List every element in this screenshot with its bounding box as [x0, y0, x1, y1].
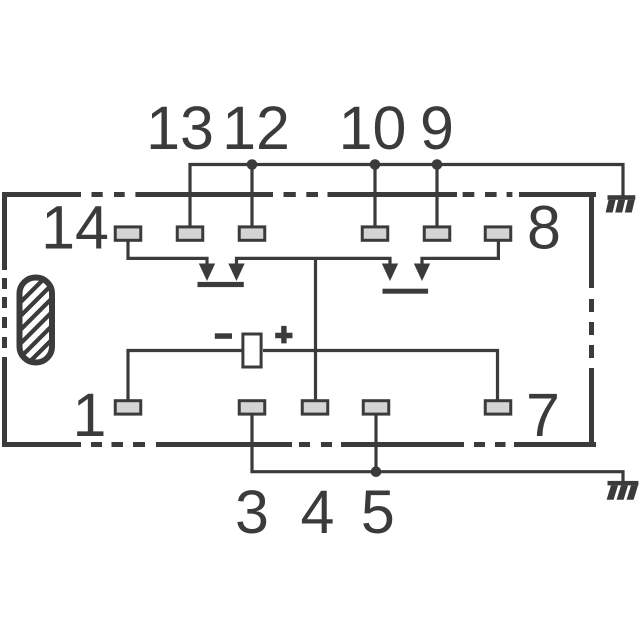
ground (top right) [606, 195, 636, 212]
pad pin 13 [177, 227, 203, 240]
coil polarity plus [275, 326, 292, 344]
node junction at pin 10 [370, 159, 381, 170]
ground (bottom right) [607, 481, 639, 500]
svg-text:4: 4 [301, 478, 335, 546]
wire pin 12 riser [250, 165, 253, 228]
svg-text:8: 8 [527, 194, 561, 262]
relay body top border [2, 192, 596, 197]
node junction at pin 12 [247, 159, 258, 170]
pad pin 9 [424, 227, 450, 240]
wire coil to pad 7 [263, 351, 498, 403]
svg-text:1: 1 [73, 381, 107, 449]
contact fixed bar (left group) [198, 282, 244, 287]
contact fixed bar (right group) [383, 289, 429, 294]
pad pin 7 [485, 401, 511, 414]
wire top bus from pin 13 to top-right ground [190, 165, 623, 228]
contact arm arrow (right group, inner) [382, 264, 398, 282]
contact arm arrow (right group, outer) [414, 264, 430, 282]
wire pad 1 to coil [128, 351, 242, 403]
svg-text:7: 7 [526, 381, 560, 449]
svg-text:3: 3 [235, 478, 269, 546]
wire pad 14 to left contact arm [128, 240, 207, 264]
pad pin 12 [239, 227, 265, 240]
wire pad 8 to right contact arm [422, 240, 498, 264]
node junction at pin 9 [432, 159, 443, 170]
relay body right border [589, 192, 594, 447]
pad pin 8 [485, 227, 511, 240]
pad pin 4 [302, 401, 328, 414]
contact arm arrow (left group, inner) [228, 264, 244, 282]
contact arm arrow (left group, outer) [199, 264, 215, 282]
coil polarity minus [215, 333, 232, 339]
svg-text:12: 12 [222, 94, 290, 162]
wire pin 9 riser [435, 165, 438, 228]
relay body bottom border [2, 442, 596, 447]
pad pin 5 [363, 401, 389, 414]
wire contact bus left arm to right group arm via pin 4 node [237, 258, 391, 264]
pad pin 14 [115, 227, 141, 240]
orientation mark (hatched capsule) [0, 60, 332, 363]
wire pad 5 drop [374, 413, 377, 472]
pad pin 10 [362, 227, 388, 240]
svg-text:9: 9 [420, 94, 454, 162]
svg-text:5: 5 [361, 478, 395, 546]
pad pin 3 [239, 401, 265, 414]
svg-text:10: 10 [339, 94, 407, 162]
wire pin 4 riser [314, 258, 317, 402]
svg-text:13: 13 [146, 94, 214, 162]
wire pad 3 to bottom bus to bottom-right ground [252, 413, 623, 482]
coil element [243, 334, 261, 367]
relay body left border [2, 192, 7, 447]
wire pin 10 riser [373, 165, 376, 228]
pad pin 1 [115, 401, 141, 414]
svg-text:14: 14 [41, 194, 109, 262]
node junction at pin 5 [371, 466, 382, 477]
